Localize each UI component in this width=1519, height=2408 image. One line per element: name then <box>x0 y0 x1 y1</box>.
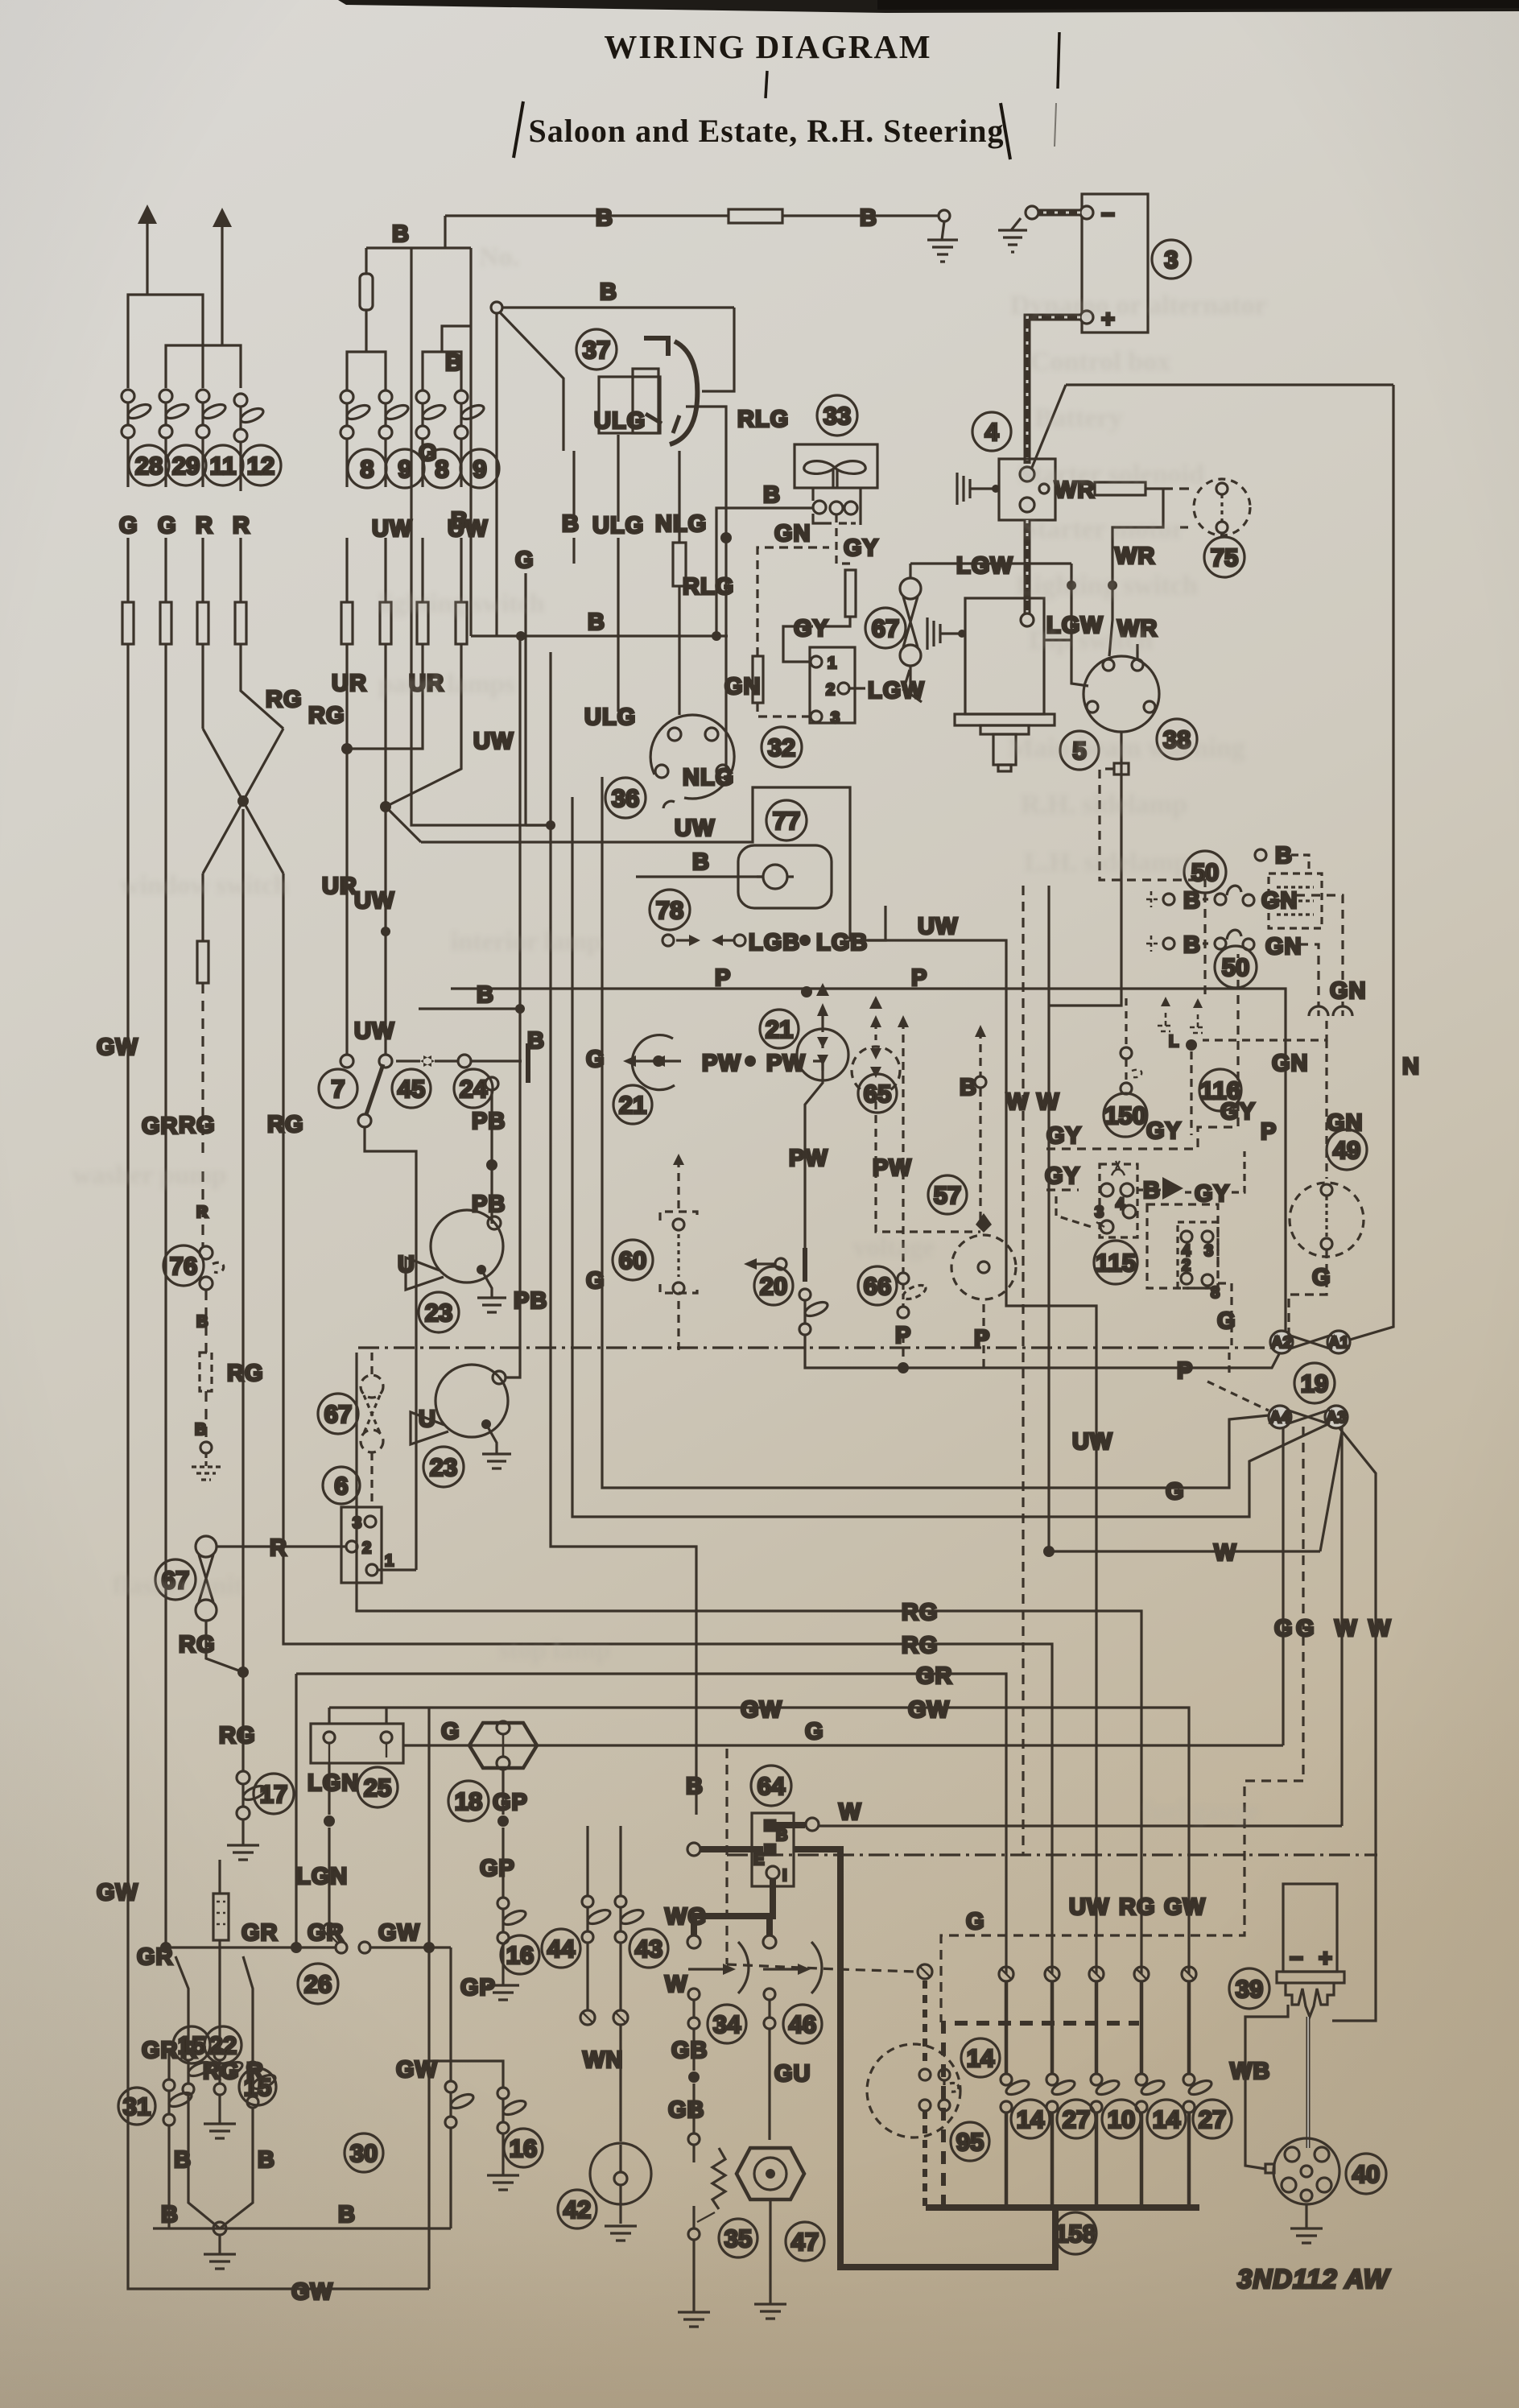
ground 35 <box>678 2240 710 2327</box>
fuse UR left <box>341 602 353 644</box>
svg-text:67: 67 <box>324 1400 352 1428</box>
svg-text:B: B <box>258 2147 275 2173</box>
svg-text:35: 35 <box>724 2224 752 2253</box>
UW wire left down <box>384 438 386 602</box>
svg-text:ULG: ULG <box>594 408 646 434</box>
78 connector row <box>662 935 674 946</box>
fuse on G wire 2 <box>160 602 171 644</box>
B feed to fan <box>716 508 812 636</box>
svg-text:G: G <box>1274 1616 1294 1642</box>
svg-text:R: R <box>233 513 250 539</box>
svg-text:UW: UW <box>372 516 412 542</box>
S3 G staircase to A4 <box>602 777 1277 1488</box>
fuse UW left <box>380 602 391 644</box>
dash-dot bus <box>358 1346 1289 1349</box>
svg-text:47: 47 <box>791 2228 819 2256</box>
GN dashed to 49 <box>1325 1040 1327 1179</box>
UW left down <box>384 644 386 807</box>
circled 20 <box>754 1266 793 1305</box>
PB wire down from 24 <box>490 1090 493 1217</box>
heavy dashed box <box>943 2023 1139 2208</box>
lamp 12 <box>234 394 265 442</box>
circled 36 <box>605 778 646 818</box>
pen slash left of subtitle <box>514 101 523 158</box>
bowtie 67 top <box>900 564 922 702</box>
inline connector on drop <box>1114 763 1129 774</box>
circled 8 <box>423 449 461 488</box>
circled 28 <box>129 445 169 485</box>
WB wire <box>1245 2005 1288 2169</box>
G wire from 36 <box>524 573 526 825</box>
GY dashed row A <box>1046 954 1238 1149</box>
svg-text:GY: GY <box>1045 1163 1080 1189</box>
svg-text:11: 11 <box>210 452 237 480</box>
fuse lamp column 43 <box>619 1826 621 1896</box>
svg-text:16: 16 <box>506 1941 534 1969</box>
50 upper connector row <box>1146 886 1343 1006</box>
GY resistor <box>845 570 856 617</box>
LGW wire horizontal top <box>910 562 1071 564</box>
svg-text:64: 64 <box>757 1772 786 1800</box>
G dashed from 49 to dashdot bus <box>1289 1249 1327 1345</box>
wiper park arc left <box>738 1942 749 1993</box>
svg-text:15: 15 <box>244 2073 271 2101</box>
GN joint down to junction <box>1203 1021 1327 1040</box>
svg-text:B: B <box>174 2147 192 2173</box>
svg-text:Lighting switch: Lighting switch <box>1016 571 1198 601</box>
svg-text:RG: RG <box>266 687 303 712</box>
circled 42 <box>558 2190 596 2228</box>
svg-text:GB: GB <box>668 2097 705 2123</box>
dashed bullet column above 150 <box>1125 998 1127 1082</box>
circled 3 <box>1152 240 1191 279</box>
svg-text:GY: GY <box>1146 1118 1182 1144</box>
W second from A3 diagonal <box>1332 1428 1376 2021</box>
B row above 116 <box>1255 849 1266 861</box>
svg-text:21: 21 <box>766 1015 793 1043</box>
24 bar contact <box>526 1043 530 1083</box>
WN wire <box>619 2025 621 2142</box>
thick I wire down-left <box>694 1879 773 1935</box>
svg-text:GN: GN <box>1265 934 1302 960</box>
lamp 10 <box>1091 1981 1121 2208</box>
RG vertical below X left <box>201 874 204 941</box>
W wire from A3 down <box>1340 1427 1343 1826</box>
circled 30 <box>345 2133 383 2172</box>
B bus left horizontal <box>502 306 734 308</box>
svg-text:26: 26 <box>304 1970 332 1998</box>
circled 116 <box>1199 1069 1241 1111</box>
svg-text:B: B <box>692 849 710 875</box>
circled 10 <box>1102 2100 1141 2138</box>
svg-text:ULG: ULG <box>592 513 644 539</box>
svg-text:4: 4 <box>984 418 999 446</box>
inline fuse on B bus <box>729 209 782 223</box>
svg-text:95: 95 <box>956 2128 984 2156</box>
svg-text:27: 27 <box>1199 2105 1226 2133</box>
svg-text:B: B <box>860 205 877 231</box>
GR vertical lamp29 down to connector row 26 <box>164 644 167 1947</box>
svg-text:B: B <box>562 511 580 537</box>
UR join bar <box>347 644 423 749</box>
svg-text:B: B <box>392 221 410 247</box>
svg-text:PB: PB <box>472 1109 506 1134</box>
B wire to horn lower <box>506 636 520 1377</box>
svg-text:GP: GP <box>460 1975 496 2001</box>
GP ground <box>487 1943 519 2000</box>
svg-text:20: 20 <box>760 1272 787 1300</box>
bowtie A4 A3 <box>1269 1406 1348 1428</box>
svg-text:Saloon and Estate, R.H. Steeri: Saloon and Estate, R.H. Steering <box>529 113 1005 149</box>
circled 40 <box>1346 2154 1386 2194</box>
circled 67 <box>865 608 906 648</box>
UW single down to switch 45 <box>384 807 386 1055</box>
svg-text:GU: GU <box>774 2061 811 2087</box>
ground 42 <box>605 2226 637 2241</box>
GW bus <box>329 1708 1189 1974</box>
ground 47 <box>754 2199 786 2319</box>
svg-text:3: 3 <box>1204 1242 1213 1260</box>
B dashed column to 57 <box>951 1031 1016 1368</box>
svg-text:GW: GW <box>741 1697 782 1723</box>
ignition switch 95 <box>867 1964 960 2208</box>
svg-text:B: B <box>195 1421 206 1439</box>
circled 115 <box>1094 1241 1137 1284</box>
svg-text:UW: UW <box>675 816 715 841</box>
circled 37 <box>576 329 617 370</box>
svg-text:W: W <box>665 1972 687 1997</box>
svg-text:RG: RG <box>902 1600 939 1625</box>
lamp row screw terminals <box>999 1967 1196 1981</box>
svg-text:36: 36 <box>612 784 639 812</box>
svg-text:PW: PW <box>789 1146 828 1171</box>
svg-text:50: 50 <box>1222 953 1249 981</box>
switch 46 contacts <box>764 1989 775 2000</box>
svg-text:L: L <box>1169 1033 1178 1051</box>
GW riser down <box>427 1708 430 2289</box>
fuse UW right <box>456 602 467 644</box>
B vertical down to B junction <box>469 248 472 636</box>
ground under 17 <box>227 1819 259 1860</box>
LGW from 32 to bowtie <box>849 687 865 689</box>
battery 3 box <box>1080 194 1148 332</box>
junction circle on B bus left <box>491 302 502 313</box>
circled 18 <box>448 1781 489 1821</box>
115 contact box <box>1178 1222 1218 1288</box>
G wire from A4 down <box>1282 1427 1284 1745</box>
circled 4 <box>972 412 1011 451</box>
circled 21 <box>613 1085 652 1124</box>
circled 25 <box>357 1767 398 1807</box>
thick lamp bus <box>926 2204 1199 2211</box>
PB to horn upper <box>490 1216 493 1224</box>
GP wire down <box>502 1770 504 1897</box>
S1 B staircase to relay 64 <box>551 652 696 1815</box>
svg-text:GN: GN <box>1330 978 1367 1004</box>
svg-text:UR: UR <box>332 671 367 696</box>
contact arrows 45 <box>396 1059 459 1062</box>
wire G lamp29 down <box>164 438 167 602</box>
B feed line horizontal <box>366 246 471 249</box>
RLG wire from relay <box>686 407 726 770</box>
GB chain <box>692 2029 695 2133</box>
link to lamp 21 right <box>805 1061 823 1264</box>
UR wire right down <box>421 438 423 602</box>
N feed top horizontal <box>1066 383 1393 386</box>
svg-text:GW: GW <box>378 1920 420 1946</box>
svg-text:G: G <box>1312 1265 1331 1291</box>
gauge 77 <box>738 845 832 908</box>
svg-text:Dip switch: Dip switch <box>1029 626 1153 655</box>
svg-text:34: 34 <box>713 2010 741 2038</box>
svg-text:B: B <box>596 205 613 231</box>
ground for battery <box>998 218 1027 252</box>
ground under bus right end <box>927 221 958 262</box>
distributor 40 <box>1273 2138 1339 2204</box>
fuse on RG <box>197 941 208 983</box>
svg-text:PB: PB <box>472 1192 506 1217</box>
svg-text:Control box: Control box <box>1030 347 1170 377</box>
svg-text:P: P <box>974 1326 990 1352</box>
115 outer dashed box <box>1147 1204 1218 1288</box>
fuse on R wire 1 <box>197 602 208 644</box>
circled 22 <box>204 2026 241 2063</box>
svg-text:B: B <box>686 1774 704 1799</box>
svg-text:8: 8 <box>360 455 374 483</box>
svg-text:14: 14 <box>967 2044 995 2072</box>
svg-text:RG: RG <box>219 1723 256 1749</box>
circled 45 <box>392 1069 431 1108</box>
drop to relay 37 <box>702 308 734 391</box>
circled 14 <box>1011 2100 1050 2138</box>
66 dashed column <box>902 1021 904 1362</box>
G dashed from A3 cross down <box>941 1427 1303 2022</box>
diagonal from junction <box>500 312 563 451</box>
wire G lamp28 down <box>126 438 129 602</box>
svg-text:GY: GY <box>1046 1123 1082 1149</box>
svg-text:GR: GR <box>241 1920 279 1946</box>
svg-text:R.H. sidelamp: R.H. sidelamp <box>1021 790 1187 820</box>
lamp 15 right <box>247 2062 258 2073</box>
svg-text:B: B <box>451 508 468 534</box>
dashed link to ignition switch <box>727 1964 918 1972</box>
svg-text:23: 23 <box>430 1453 457 1481</box>
circled 8 <box>348 449 386 488</box>
dashed tachometer feed <box>1100 769 1205 997</box>
svg-text:16: 16 <box>510 2134 537 2162</box>
S2 G staircase to A3 <box>572 797 1335 1517</box>
svg-text:43: 43 <box>635 1935 662 1963</box>
svg-text:W: W <box>839 1799 861 1825</box>
svg-text:Battery: Battery <box>1034 403 1123 433</box>
bottom GW loop <box>128 2246 429 2289</box>
svg-text:37: 37 <box>583 336 610 364</box>
relay box 25 <box>311 1708 403 1763</box>
bracket joining lamps 29 and 12 <box>166 345 241 388</box>
svg-text:29: 29 <box>172 452 200 480</box>
svg-text:GY: GY <box>1195 1181 1230 1207</box>
circled 24 <box>454 1069 493 1108</box>
dashed inline fuse <box>200 1353 212 1391</box>
hex lamp 18 <box>469 1721 537 1770</box>
switch terminal UW <box>379 1055 392 1068</box>
bracket joining lamps 28 and 11 <box>128 295 203 388</box>
svg-text:UW: UW <box>354 888 394 914</box>
GY elbow to 32 terminal 1 <box>821 617 850 626</box>
svg-text:LGW: LGW <box>868 678 925 704</box>
battery + cable thick down to solenoid <box>1027 317 1080 464</box>
ULG vertical <box>617 435 619 712</box>
R wire from bowtie to box 6 <box>217 1545 346 1547</box>
G wire upper <box>411 248 551 825</box>
circled 35 <box>719 2219 757 2257</box>
svg-text:B: B <box>527 1028 545 1054</box>
B horizontal link <box>471 634 728 637</box>
svg-text:18: 18 <box>455 1787 482 1815</box>
svg-text:46: 46 <box>789 2010 816 2038</box>
svg-text:G: G <box>1166 1479 1185 1505</box>
svg-text:RG: RG <box>1119 1894 1156 1920</box>
svg-text:LGN: LGN <box>296 1864 348 1890</box>
NLG vertical <box>678 451 680 715</box>
N long vertical right <box>1342 385 1393 1342</box>
circled 31 <box>118 2088 155 2125</box>
circled 34 <box>708 2005 746 2043</box>
dashed grounds pair <box>1158 997 1206 1033</box>
svg-text:77: 77 <box>773 807 800 835</box>
connector row 26 <box>166 1946 451 1948</box>
svg-text:UW: UW <box>1069 1894 1109 1920</box>
svg-text:PB: PB <box>514 1288 547 1314</box>
svg-text:8: 8 <box>1211 1284 1220 1302</box>
lamp 22 <box>214 2049 225 2060</box>
ground under distributor <box>1290 2204 1323 2243</box>
svg-text:21: 21 <box>619 1091 646 1119</box>
B drop from top bus <box>444 216 446 248</box>
fan connector row <box>813 501 826 514</box>
circled 17 <box>254 1774 294 1814</box>
svg-text:NLG: NLG <box>655 511 707 537</box>
ignition coil 5 <box>955 598 1055 771</box>
wire R lamp11 down <box>201 438 204 602</box>
GN resistor <box>753 656 763 703</box>
svg-text:50: 50 <box>1191 858 1219 886</box>
RG elbow from bowtie to RG vertical <box>206 1621 243 1672</box>
svg-text:G: G <box>1217 1308 1236 1334</box>
svg-text:B: B <box>600 279 617 305</box>
svg-text:4: 4 <box>1116 1196 1125 1213</box>
svg-text:washer pump: washer pump <box>72 1161 226 1190</box>
50 lower connector row <box>1146 930 1319 1006</box>
svg-text:−: − <box>1290 1946 1304 1972</box>
svg-text:WIRING DIAGRAM: WIRING DIAGRAM <box>604 28 931 65</box>
svg-text:P: P <box>1261 1119 1277 1145</box>
switch blade 7 <box>366 1064 383 1114</box>
B link horizontal <box>419 1007 520 1010</box>
small vertical mark top right <box>1058 32 1059 89</box>
svg-text:G: G <box>1296 1616 1315 1642</box>
lamp 28 <box>122 390 152 438</box>
svg-text:B: B <box>776 1827 787 1844</box>
circled 75 <box>1204 537 1245 577</box>
svg-text:stop lamp: stop lamp <box>499 1636 610 1665</box>
circled 9 <box>386 449 424 488</box>
svg-text:GW: GW <box>1164 1894 1206 1920</box>
svg-text:B: B <box>1275 843 1293 869</box>
svg-text:G: G <box>441 1719 460 1745</box>
W dashed vertical <box>1022 886 1024 1855</box>
circled 77 <box>766 800 807 841</box>
svg-text:R: R <box>196 513 213 539</box>
svg-text:G: G <box>586 1268 605 1294</box>
wire from 6 terminal 1 <box>378 1568 416 1571</box>
svg-text:GY: GY <box>844 535 879 561</box>
bowtie connector 67 dashed (above box 6) <box>361 1353 383 1504</box>
hex lamp 47 <box>737 2148 804 2199</box>
svg-text:RG: RG <box>267 1112 304 1138</box>
svg-text:UW: UW <box>473 729 514 754</box>
svg-text:6: 6 <box>334 1472 348 1500</box>
P bus lower <box>901 1349 1282 1368</box>
dashed B below 76 <box>204 1290 207 1353</box>
circled 32 <box>762 727 802 767</box>
HT lead to distributor <box>1306 2017 1311 2148</box>
LGW link coil to wire <box>1044 638 1071 641</box>
svg-text:GW: GW <box>97 1880 138 1906</box>
svg-text:RG: RG <box>227 1361 264 1386</box>
RG dashed below fuse <box>201 983 204 1159</box>
circled 33 <box>817 395 857 436</box>
fuse UR right <box>417 602 428 644</box>
WR elbow down from resistor <box>1109 489 1163 656</box>
lamp 8 right <box>416 390 447 439</box>
circled 27 <box>1193 2100 1232 2138</box>
circled 7 <box>319 1069 357 1108</box>
svg-text:RG: RG <box>308 703 345 729</box>
GR bus <box>296 1674 1006 1974</box>
terminal at bus right end <box>939 210 950 221</box>
svg-text:WR: WR <box>1115 543 1155 569</box>
svg-text:P: P <box>911 965 927 991</box>
svg-text:RG: RG <box>179 1632 216 1658</box>
lamp 11 <box>196 390 227 438</box>
svg-text:LGB: LGB <box>816 930 868 956</box>
circled 50 lower <box>1215 946 1257 988</box>
svg-text:30: 30 <box>350 2139 378 2167</box>
pen slash right of subtitle <box>1001 103 1010 159</box>
svg-text:31: 31 <box>123 2092 151 2121</box>
svg-text:G: G <box>515 547 535 573</box>
LGN wire down <box>328 1763 330 1923</box>
svg-text:66: 66 <box>864 1272 891 1300</box>
svg-text:RG: RG <box>179 1113 216 1138</box>
ground under 76 chain <box>192 1453 221 1480</box>
svg-text:flasher unit: flasher unit <box>113 1572 243 1601</box>
circled 14 <box>1147 2100 1186 2138</box>
connector 76 dashed column <box>201 1171 204 1246</box>
svg-text:W: W <box>1214 1540 1236 1566</box>
G bus to left <box>403 1744 1283 1746</box>
bracket joining lamps 8 and 9 (right pair) <box>423 352 461 390</box>
svg-text:PW: PW <box>702 1051 741 1076</box>
svg-text:1: 1 <box>385 1552 394 1570</box>
circled 12 <box>241 445 281 485</box>
circled 26 <box>298 1964 338 2004</box>
thick feed from E to right main <box>794 1849 1055 2267</box>
circled 67 <box>318 1394 358 1434</box>
65 dashed column <box>852 1021 980 1232</box>
circled 5 <box>1060 731 1099 770</box>
